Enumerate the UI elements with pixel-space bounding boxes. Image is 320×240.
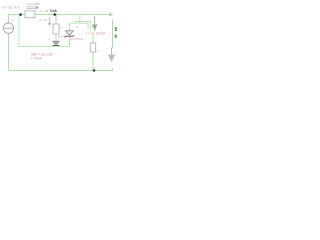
node B junction dot [54,13,57,16]
diode D1 [53,41,60,45]
svg-text:Iz = 5 mA: Iz = 5 mA [71,37,83,41]
resistor R1 (top box) [25,11,35,18]
current arrow above R1 [27,7,37,8]
current arrow branch C [94,16,96,25]
svg-text:ca. 9V: ca. 9V [39,18,48,22]
node D junction dot [93,69,95,71]
wire right rail arrowhead [109,12,114,16]
current arrow at branch B [49,18,51,23]
wire branch C [92,36,94,44]
wire zener rail link [79,15,81,23]
wire diode to node [55,46,57,47]
svg-text:I = ca. 30 mA: I = ca. 30 mA [86,32,106,36]
voltage source U1 [3,23,13,33]
load current arrow [111,48,113,57]
node A junction dot [19,13,22,16]
svg-text:Uz: Uz [75,25,79,29]
svg-text:k6: k6 [114,27,118,31]
wire left rail lower [9,33,113,70]
resistor R2 (mid box) [53,24,59,34]
svg-text:W: W [114,34,118,38]
wire right rail [112,20,114,49]
wire R3 to bottom [92,52,94,71]
zener diode ZD1 [69,37,71,47]
wire below R2 [55,34,57,41]
bent double arrow [75,22,91,31]
wire top rail [9,14,110,16]
svg-text:I = 5mA: I = 5mA [31,57,43,61]
svg-text:I = ca.: I = ca. [40,9,49,13]
wire left rail upper [8,14,10,23]
wire mid horizontal [19,15,70,47]
svg-text:0,4A: 0,4A [50,9,58,13]
svg-text:0,4-1,25V: 0,4-1,25V [27,2,41,6]
svg-text:U = ca. 9 V: U = ca. 9 V [2,5,20,9]
wire branch B down [55,15,57,24]
resistor R3 (lower box) [90,43,95,52]
wire zener top [70,23,89,30]
